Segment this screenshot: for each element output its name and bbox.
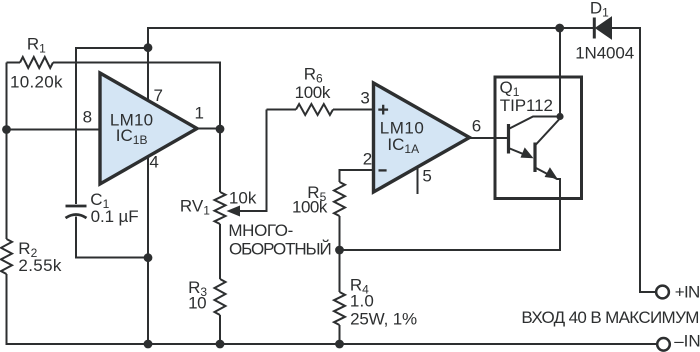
svg-text:100k: 100k bbox=[292, 198, 328, 217]
junction dot: rail at R3 bbox=[216, 340, 225, 349]
wire: pin 4 to bottom rail bbox=[147, 157, 149, 345]
wire: R4 leads bbox=[339, 250, 341, 344]
transistor Q1b base bar bbox=[533, 143, 536, 173]
wire: R5 bottom to node bbox=[339, 216, 341, 250]
wire: top rail from pin 7 to diode and +IN terminal bbox=[148, 28, 656, 292]
svg-text:10: 10 bbox=[188, 293, 207, 312]
wiper arrow of RV1 bbox=[227, 110, 267, 217]
svg-text:1: 1 bbox=[195, 104, 204, 123]
op-amp IC1A bbox=[374, 83, 470, 192]
resistor R4 bbox=[334, 292, 345, 325]
wire: R3 bottom to rail bbox=[219, 315, 221, 344]
junction dot: R5/R4/emitter node bbox=[335, 246, 344, 255]
svg-text:ВХОД 40 В МАКСИМУМ: ВХОД 40 В МАКСИМУМ bbox=[521, 308, 699, 327]
minus input mark IC1A bbox=[379, 169, 387, 171]
wire: R1 left lead bbox=[7, 62, 21, 64]
svg-text:–IN: –IN bbox=[674, 331, 700, 350]
svg-text:2: 2 bbox=[363, 149, 372, 168]
wire: pin 8 input bbox=[7, 129, 101, 131]
transistor Q1b emitter line with arrow bbox=[535, 167, 560, 179]
svg-text:25W, 1%: 25W, 1% bbox=[350, 309, 417, 328]
wire: pin 1 output bbox=[197, 128, 220, 130]
junction dot: Q1 internal collector node bbox=[556, 113, 563, 120]
junction dot: pin 8 node bbox=[2, 125, 11, 134]
wire: R2 bottom to bottom rail bbox=[7, 274, 657, 344]
transistor Q1a emitter line with arrow bbox=[509, 147, 534, 158]
junction dot: top rail at Q1 collector bbox=[555, 24, 564, 33]
junction dot: C1/pin-4 bbox=[144, 253, 153, 262]
wire: RV1 bottom to R3 bbox=[219, 224, 221, 279]
svg-text:8: 8 bbox=[83, 107, 92, 126]
svg-text:5: 5 bbox=[422, 166, 431, 185]
wire: pin 5 stub bbox=[417, 166, 419, 194]
resistor R1 bbox=[20, 57, 53, 68]
svg-text:1.0: 1.0 bbox=[350, 291, 374, 310]
junction dot: rail at pin-4 bbox=[144, 340, 153, 349]
svg-text:R1: R1 bbox=[27, 34, 46, 55]
svg-text:+IN: +IN bbox=[675, 282, 700, 301]
resistor R2 bbox=[1, 239, 12, 274]
svg-text:D1: D1 bbox=[590, 0, 609, 19]
transistor Q1b collector line bbox=[535, 120, 559, 146]
svg-text:7: 7 bbox=[154, 86, 163, 105]
diode D1 bbox=[594, 18, 611, 39]
svg-text:2.55k: 2.55k bbox=[18, 256, 62, 275]
svg-text:ОБОРОТНЫЙ: ОБОРОТНЫЙ bbox=[229, 239, 332, 258]
wire: R1 right to feedback corner down to pin 1 bbox=[53, 63, 220, 130]
transistor Q1a collector line bbox=[509, 117, 561, 130]
svg-text:6: 6 bbox=[472, 116, 481, 135]
svg-text:4: 4 bbox=[149, 152, 158, 171]
svg-text:TIP112: TIP112 bbox=[500, 96, 553, 115]
svg-text:3: 3 bbox=[360, 89, 369, 108]
svg-text:1N4004: 1N4004 bbox=[575, 43, 634, 62]
transistor Q1a base bar bbox=[507, 124, 510, 154]
wire: node to Q1 emitter bbox=[340, 178, 561, 250]
junction dot: rail at R4 bbox=[335, 340, 344, 349]
plus input mark IC1A bbox=[378, 105, 388, 115]
wire: pin 6 output to Q1 base bbox=[470, 137, 509, 139]
resistor R3 bbox=[215, 279, 226, 315]
wire: R6 right to pin 3 bbox=[333, 109, 374, 111]
svg-text:0.1 µF: 0.1 µF bbox=[91, 207, 139, 226]
op-amp IC1B bbox=[100, 73, 197, 184]
resistor R6 bbox=[296, 104, 333, 115]
junction dot: pin 1 node bbox=[216, 125, 225, 134]
capacitor C1 bbox=[66, 206, 87, 218]
wire: left input column (R1 left, R2, to bottom rail) bbox=[6, 63, 8, 240]
wire: collector from top rail into box bbox=[559, 28, 561, 117]
wire: C1 top to pin-7 junction bbox=[76, 48, 148, 204]
svg-text:100k: 100k bbox=[295, 83, 331, 102]
transistor Q1 box bbox=[495, 77, 582, 199]
svg-text:10k: 10k bbox=[229, 188, 257, 207]
terminal +IN bbox=[656, 286, 669, 299]
wire: wiper node to R6 left lead bbox=[267, 109, 297, 111]
potentiometer RV1 bbox=[215, 192, 226, 224]
svg-text:МНОГО-: МНОГО- bbox=[228, 221, 293, 240]
terminal -IN bbox=[657, 338, 670, 351]
wire: C1 bottom to pin-4 line bbox=[76, 217, 148, 258]
junction at pin-7/C1 bbox=[144, 43, 153, 52]
svg-text:10.20k: 10.20k bbox=[10, 72, 63, 91]
wire: pin 2 lead from R5 top bbox=[340, 170, 374, 182]
svg-text:RV1: RV1 bbox=[180, 196, 210, 217]
wire: pin1 node down to RV1 bbox=[219, 129, 221, 193]
resistor R5 bbox=[334, 182, 345, 216]
